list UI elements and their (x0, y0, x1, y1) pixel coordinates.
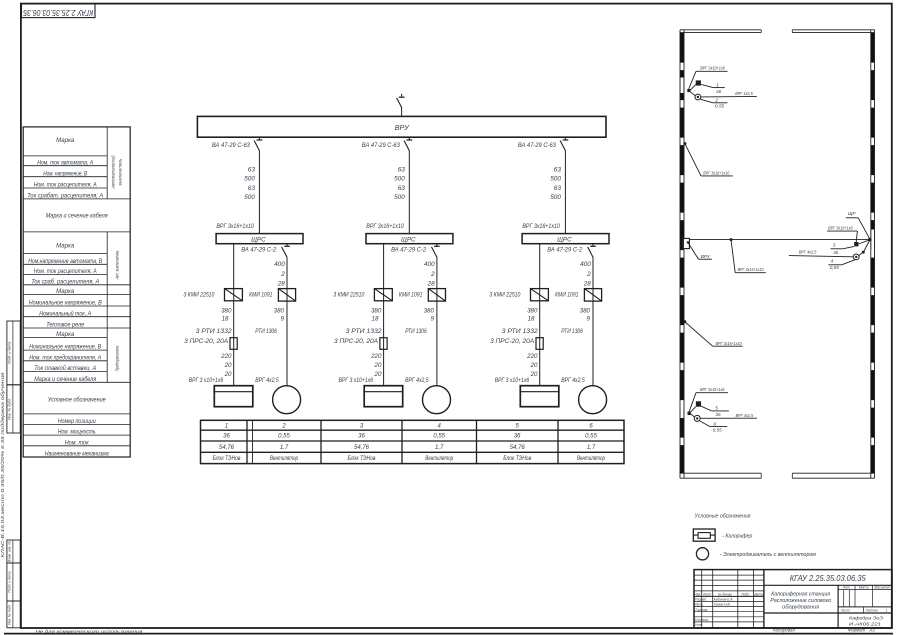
svg-text:Т.контр.: Т.контр. (695, 608, 708, 612)
svg-text:Кудинов Е.А.: Кудинов Е.А. (714, 598, 734, 602)
svg-text:36: 36 (833, 250, 839, 255)
svg-text:Инв. № подл.: Инв. № подл. (7, 604, 11, 625)
svg-text:ВРГ 4х2,5: ВРГ 4х2,5 (255, 377, 279, 384)
svg-text:4: 4 (830, 259, 833, 264)
svg-text:Блок ТЭНов: Блок ТЭНов (348, 456, 376, 462)
svg-text:КГАУ 2.25.35.03.06.35: КГАУ 2.25.35.03.06.35 (23, 8, 93, 18)
svg-text:Наименование механизма: Наименование механизма (45, 451, 110, 458)
svg-text:220: 220 (220, 353, 232, 360)
svg-text:Авт. выключатель: Авт. выключатель (115, 250, 120, 280)
svg-text:18: 18 (222, 316, 229, 323)
svg-text:380: 380 (221, 307, 232, 314)
svg-text:54,76: 54,76 (354, 445, 370, 451)
svg-text:3 ПРС-20, 20А: 3 ПРС-20, 20А (490, 338, 534, 345)
svg-text:3 КМИ 22510: 3 КМИ 22510 (333, 292, 364, 299)
svg-text:оборудования: оборудования (782, 604, 819, 610)
svg-text:Ном. мощность: Ном. мощность (58, 429, 96, 436)
svg-text:Тепловое реле: Тепловое реле (46, 322, 85, 329)
svg-text:36: 36 (223, 434, 230, 440)
svg-text:ВРГ 3 х10+1х6: ВРГ 3 х10+1х6 (339, 377, 374, 384)
svg-text:Блок ТЭНов: Блок ТЭНов (503, 456, 531, 462)
svg-text:20: 20 (530, 362, 538, 369)
svg-text:РТИ 1306: РТИ 1306 (255, 328, 277, 335)
svg-text:Инв. № дубл.: Инв. № дубл. (7, 398, 11, 420)
svg-text:Н.контр.: Н.контр. (695, 618, 709, 622)
svg-text:Дата: Дата (753, 592, 763, 596)
svg-text:Номинальное напряжение, В: Номинальное напряжение, В (29, 344, 101, 351)
svg-text:2: 2 (714, 98, 718, 103)
svg-text:ВРГ 4х2,5: ВРГ 4х2,5 (561, 377, 585, 384)
svg-text:20: 20 (374, 362, 382, 369)
svg-text:36: 36 (514, 434, 521, 440)
svg-text:Калориферная станция: Калориферная станция (771, 591, 830, 597)
svg-text:Марка и сечение кабеля: Марка и сечение кабеля (34, 376, 97, 383)
svg-text:9: 9 (587, 316, 591, 323)
svg-text:9: 9 (430, 316, 434, 323)
svg-text:20: 20 (224, 362, 232, 369)
svg-text:И-АК06.221: И-АК06.221 (849, 621, 881, 627)
svg-text:380: 380 (371, 307, 382, 314)
svg-text:36: 36 (715, 412, 721, 417)
svg-text:54,76: 54,76 (510, 445, 526, 451)
svg-text:1: 1 (886, 609, 888, 613)
svg-text:0,55: 0,55 (830, 265, 840, 270)
svg-text:220: 220 (370, 353, 382, 360)
svg-text:Ханин Н.В.: Ханин Н.В. (713, 603, 731, 607)
svg-text:500: 500 (550, 176, 561, 183)
svg-text:ВРГ 3х16+1х10: ВРГ 3х16+1х10 (716, 341, 742, 346)
svg-text:2: 2 (586, 271, 591, 278)
svg-text:ЩРС: ЩРС (251, 236, 266, 243)
svg-text:- Калорифер: - Калорифер (722, 534, 752, 540)
svg-text:ВРГ 4х2,5: ВРГ 4х2,5 (736, 413, 754, 418)
svg-text:ВА 47-29 С-63: ВА 47-29 С-63 (212, 142, 250, 149)
svg-text:9: 9 (281, 316, 285, 323)
svg-text:РТИ 1306: РТИ 1306 (561, 328, 583, 335)
svg-text:380: 380 (580, 307, 591, 314)
svg-text:- Электродвигатель с вентилято: - Электродвигатель с вентилятором (720, 552, 816, 558)
svg-text:Марка: Марка (56, 242, 75, 249)
svg-text:РТИ 1306: РТИ 1306 (405, 328, 427, 335)
svg-text:18: 18 (372, 316, 379, 323)
svg-text:3: 3 (833, 243, 836, 248)
svg-text:ВА 47-29 С-63: ВА 47-29 С-63 (518, 142, 556, 149)
svg-text:Вентилятор: Вентилятор (577, 456, 605, 462)
svg-text:Марка и сечение кабеля: Марка и сечение кабеля (46, 212, 109, 219)
svg-text:КМИ 1091: КМИ 1091 (249, 292, 273, 299)
svg-text:2: 2 (430, 271, 435, 278)
svg-text:400: 400 (424, 261, 435, 268)
svg-text:1,7: 1,7 (280, 445, 289, 451)
svg-text:Номинальное напряжение, В: Номинальное напряжение, В (29, 300, 102, 307)
svg-text:Номер позиции: Номер позиции (58, 418, 97, 425)
svg-text:0,55: 0,55 (278, 434, 290, 440)
svg-text:ВРГ 3 х10+1х6: ВРГ 3 х10+1х6 (495, 377, 530, 384)
svg-text:3 ПРС-20, 20А: 3 ПРС-20, 20А (184, 338, 228, 345)
svg-text:3 ПРС-20, 20А: 3 ПРС-20, 20А (334, 338, 378, 345)
svg-text:380: 380 (274, 307, 285, 314)
svg-text:Расположение силового: Расположение силового (770, 598, 831, 604)
svg-text:3 КМИ 22510: 3 КМИ 22510 (183, 292, 214, 299)
svg-text:ЩР: ЩР (848, 211, 856, 216)
svg-text:20: 20 (374, 371, 382, 378)
svg-text:Ток срабат. расцепителя, А: Ток срабат. расцепителя, А (27, 193, 103, 200)
svg-text:63: 63 (248, 185, 256, 192)
svg-text:63: 63 (248, 166, 256, 173)
svg-text:Кафедра ЭиЭ: Кафедра ЭиЭ (849, 615, 884, 621)
svg-text:Ном.напряжение автомата, В: Ном.напряжение автомата, В (28, 258, 102, 265)
svg-text:Лит.: Лит. (842, 586, 851, 590)
svg-text:500: 500 (394, 176, 405, 183)
svg-text:63: 63 (554, 185, 562, 192)
svg-text:ВРГ 3х16+1х10: ВРГ 3х16+1х10 (703, 171, 729, 176)
svg-text:220: 220 (526, 353, 538, 360)
svg-text:ВРГ 3х16+1х10: ВРГ 3х16+1х10 (738, 267, 764, 272)
svg-text:Вентилятор: Вентилятор (270, 456, 298, 462)
svg-text:ВРГ 3х16+1х10: ВРГ 3х16+1х10 (522, 223, 560, 230)
svg-text:ВА 47-29 С-2: ВА 47-29 С-2 (547, 246, 582, 253)
svg-text:Подп. и дата: Подп. и дата (7, 571, 11, 592)
svg-text:ВА 47-29 С-2: ВА 47-29 С-2 (241, 246, 276, 253)
svg-text:500: 500 (550, 194, 561, 201)
svg-text:Вентилятор: Вентилятор (425, 456, 453, 462)
svg-text:500: 500 (244, 176, 255, 183)
svg-text:Не для коммерческого использов: Не для коммерческого использования (36, 629, 144, 634)
svg-text:380: 380 (424, 307, 435, 314)
svg-text:Масса: Масса (859, 586, 869, 590)
svg-text:3 РТИ 1332: 3 РТИ 1332 (502, 328, 539, 335)
svg-text:36: 36 (716, 89, 722, 94)
svg-text:выключатель: выключатель (117, 158, 122, 186)
svg-text:Ном. ток: Ном. ток (65, 439, 90, 446)
svg-text:Ном. ток предохранителя, А: Ном. ток предохранителя, А (29, 354, 101, 361)
svg-text:3 РТИ 1332: 3 РТИ 1332 (196, 328, 233, 335)
svg-text:Ток плавкой вставки, А: Ток плавкой вставки, А (34, 365, 96, 372)
svg-text:КЛАС-В.16.03.место 0.35/0.35/2: КЛАС-В.16.03.место 0.35/0.35/20% 6.35 по… (0, 371, 5, 557)
svg-text:Номинальный ток, А: Номинальный ток, А (39, 310, 91, 317)
svg-text:Взам. инв. №: Взам. инв. № (7, 541, 11, 562)
svg-text:3 КМИ 22510: 3 КМИ 22510 (489, 292, 520, 299)
svg-text:500: 500 (244, 194, 255, 201)
svg-text:Лист: Лист (840, 609, 850, 613)
svg-text:Автоматический: Автоматический (110, 155, 115, 189)
svg-text:2: 2 (280, 271, 285, 278)
svg-text:Подп. и дата: Подп. и дата (7, 342, 11, 365)
svg-text:Условные обозначения: Условные обозначения (694, 514, 751, 520)
svg-text:Марка: Марка (56, 288, 75, 295)
svg-text:18: 18 (528, 316, 535, 323)
svg-text:1: 1 (225, 423, 228, 429)
svg-text:0,55: 0,55 (433, 434, 445, 440)
svg-text:№ докум.: № докум. (718, 592, 733, 596)
svg-text:500: 500 (394, 194, 405, 201)
svg-text:Подп.: Подп. (741, 592, 750, 596)
svg-text:36: 36 (358, 434, 365, 440)
svg-text:Ном. напряжение, В: Ном. напряжение, В (43, 170, 87, 177)
svg-text:ВРУ: ВРУ (395, 123, 411, 132)
svg-text:Ток сраб. расцепителя, А: Ток сраб. расцепителя, А (31, 278, 99, 285)
svg-text:54,76: 54,76 (219, 445, 235, 451)
svg-text:КГАУ 2.25.35.03.06.35: КГАУ 2.25.35.03.06.35 (790, 573, 866, 583)
svg-text:Разраб.: Разраб. (695, 598, 707, 602)
svg-text:Ном. ток автомата, А: Ном. ток автомата, А (37, 159, 93, 166)
svg-text:ВРГ 3х16+1х10: ВРГ 3х16+1х10 (366, 223, 404, 230)
svg-text:Листов: Листов (864, 609, 877, 613)
svg-text:Марка: Марка (56, 331, 75, 338)
svg-text:ВРГ 3х10+1х6: ВРГ 3х10+1х6 (828, 226, 853, 231)
svg-text:Марка: Марка (56, 137, 75, 144)
svg-text:63: 63 (398, 185, 406, 192)
svg-text:Ном. ток расцепителя, А: Ном. ток расцепителя, А (34, 268, 97, 275)
svg-text:28: 28 (583, 281, 592, 288)
svg-text:63: 63 (554, 166, 562, 173)
svg-text:ВРГ 3х10+1х6: ВРГ 3х10+1х6 (700, 387, 725, 392)
svg-text:1: 1 (716, 83, 719, 88)
svg-text:Условное обозначение: Условное обозначение (47, 396, 106, 403)
svg-text:ЩРС: ЩРС (557, 236, 572, 243)
svg-text:Масштаб: Масштаб (874, 586, 890, 590)
svg-text:Предохранитель: Предохранитель (115, 345, 120, 372)
svg-text:ВРГ 4х2,5: ВРГ 4х2,5 (405, 377, 429, 384)
svg-text:ВРГ 3х10+1х6: ВРГ 3х10+1х6 (700, 66, 725, 71)
svg-text:ВРГ 3х16+1х10: ВРГ 3х16+1х10 (216, 223, 254, 230)
svg-text:6: 6 (713, 422, 716, 427)
svg-text:1,7: 1,7 (435, 445, 444, 451)
svg-text:0,55: 0,55 (713, 428, 723, 433)
svg-text:ВРГ 4х2,5: ВРГ 4х2,5 (735, 91, 753, 96)
svg-text:ВРУ: ВРУ (701, 254, 711, 259)
svg-text:1,7: 1,7 (587, 445, 596, 451)
svg-text:63: 63 (398, 166, 406, 173)
svg-text:КМИ 1091: КМИ 1091 (399, 292, 423, 299)
svg-text:ВРГ 3 х10+1х6: ВРГ 3 х10+1х6 (189, 377, 224, 384)
svg-text:0,55: 0,55 (715, 104, 725, 109)
svg-text:Утв.: Утв. (695, 623, 703, 627)
svg-text:Пров.: Пров. (695, 603, 704, 607)
svg-text:ЩРС: ЩРС (401, 236, 416, 243)
svg-text:20: 20 (530, 371, 538, 378)
svg-text:Изм.: Изм. (694, 592, 701, 596)
svg-text:2: 2 (281, 423, 286, 429)
svg-text:КМИ 1091: КМИ 1091 (555, 292, 579, 299)
svg-text:28: 28 (277, 281, 286, 288)
svg-text:20: 20 (224, 371, 232, 378)
svg-text:28: 28 (427, 281, 436, 288)
svg-text:Лист: Лист (702, 592, 712, 596)
svg-text:ВА 47-29 С-63: ВА 47-29 С-63 (362, 142, 400, 149)
svg-text:ВА 47-29 С-2: ВА 47-29 С-2 (391, 246, 426, 253)
svg-text:0,55: 0,55 (585, 434, 597, 440)
svg-text:ВРГ 4х2,5: ВРГ 4х2,5 (799, 250, 817, 255)
svg-text:5: 5 (715, 406, 718, 411)
svg-text:Ном. ток расцепителя, А: Ном. ток расцепителя, А (34, 182, 97, 189)
svg-text:380: 380 (527, 307, 538, 314)
svg-text:400: 400 (580, 261, 591, 268)
svg-text:Блок ТЭНов: Блок ТЭНов (213, 456, 241, 462)
svg-text:400: 400 (274, 261, 285, 268)
svg-text:3 РТИ 1332: 3 РТИ 1332 (346, 328, 383, 335)
